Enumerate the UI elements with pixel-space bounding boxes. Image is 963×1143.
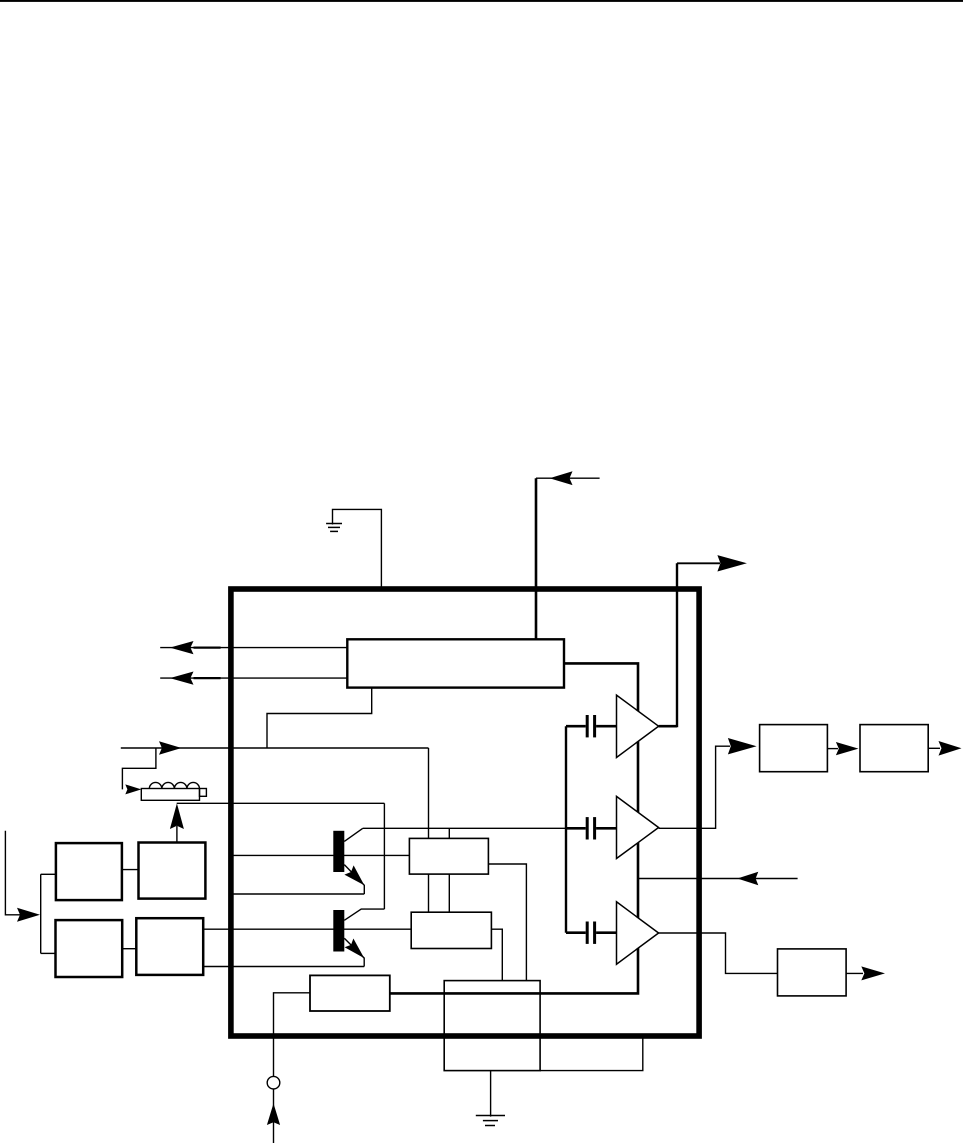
wire + arrow (feedback input, right)	[638, 872, 798, 885]
block X2 (top-right)	[139, 843, 206, 899]
wire + arrow (top input pin)	[536, 471, 600, 640]
wire + arrow (external bias input)	[267, 1089, 280, 1143]
control block U3	[347, 639, 564, 687]
top rule	[0, 0, 963, 2]
wire (Q1 emitter pin)	[230, 893, 364, 895]
wire (X4 to Q2 emitter)	[203, 966, 364, 968]
block X3 (bottom-left)	[56, 920, 123, 977]
block X4 (bottom-right)	[136, 918, 203, 975]
ground (top)	[326, 509, 381, 591]
op-amp U1	[617, 695, 659, 757]
wire + arrow (oscillator to L1 node)	[170, 803, 184, 842]
wire (B1 to IC bottom edge)	[540, 1037, 643, 1071]
transistor Q1	[333, 828, 364, 894]
block M1	[409, 838, 488, 874]
wire (L1 node to Q2 collector)	[177, 803, 385, 909]
wire (X3-X4)	[122, 948, 136, 950]
pad circle	[267, 1076, 280, 1089]
wire (X1-X2)	[122, 869, 139, 871]
block M2	[411, 912, 491, 948]
wire + arrow (far-left input)	[5, 831, 40, 922]
wire (left boxes input bus)	[41, 874, 56, 953]
wire + arrow (op-amp U1 output to top-right pin)	[659, 555, 747, 727]
inductor L1	[141, 782, 206, 800]
wire + arrow (R2 output)	[928, 741, 961, 756]
capacitor C2	[566, 817, 617, 839]
block B1 (crosses IC boundary)	[444, 981, 540, 1071]
ground (bottom)	[476, 1071, 505, 1126]
wire (M1-M2 left)	[428, 874, 430, 912]
transistor Q2	[333, 909, 384, 966]
block X1 (top-left)	[56, 843, 122, 900]
wire (M1-M2 right)	[448, 874, 450, 912]
wire + arrow (left output pin A)	[160, 641, 347, 654]
wire (Q1 base pin)	[230, 854, 409, 856]
wire + arrow (left control input pin) to M1	[121, 741, 429, 838]
block RB (bias)	[310, 975, 390, 1011]
wire + arrow (B3 output)	[846, 966, 885, 980]
wire (Q1 collector to C2)	[363, 827, 567, 829]
wire (capacitor input rail)	[565, 726, 567, 933]
wire + arrow into inductor L1	[122, 748, 155, 794]
wire (M2 right to bottom block B1)	[491, 929, 502, 980]
wire (U3b output to block B3)	[659, 933, 778, 973]
block B3	[778, 949, 847, 996]
op-amp U2	[617, 796, 659, 858]
block R2	[860, 725, 928, 772]
wire (RB to pad)	[274, 993, 311, 1077]
capacitor C3	[566, 922, 617, 944]
capacitor C1	[566, 715, 617, 737]
op-amp U3b	[617, 902, 659, 964]
IC boundary (thick box)	[231, 589, 699, 1036]
wire (collector line to M1 top)	[448, 828, 450, 838]
wire + arrow (U2 output to block R1)	[659, 738, 757, 828]
wire + arrow (left output pin B)	[160, 672, 347, 685]
wire (U3 output rail to bias bus)	[390, 663, 638, 993]
wire (M1 right to bottom block B1)	[488, 864, 526, 981]
wire (U3 bottom to input net)	[267, 688, 372, 748]
wire (X4 to Q2 base / M2)	[203, 928, 411, 930]
wire + arrow (R1 to R2)	[827, 742, 858, 755]
block R1	[760, 725, 828, 772]
